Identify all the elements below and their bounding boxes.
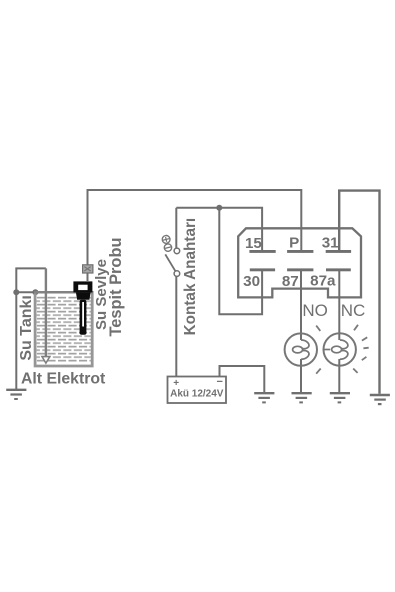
tank rim	[34, 291, 94, 294]
relay pin 87a bar	[326, 268, 351, 271]
battery Aku 12/24V	[168, 377, 227, 404]
ground under NC	[330, 393, 350, 402]
svg-text:P: P	[289, 234, 299, 251]
electrode wire into tank	[45, 268, 47, 356]
wire top horizontal from probe to relay P	[88, 190, 302, 281]
svg-text:Kontak Anahtarı: Kontak Anahtarı	[182, 218, 199, 336]
svg-text:30: 30	[243, 273, 260, 290]
wire rim connection	[16, 291, 36, 293]
wire battery minus to ground	[220, 366, 265, 393]
ground under NO	[292, 393, 312, 402]
svg-text:Alt Elektrot: Alt Elektrot	[21, 370, 106, 387]
relay pin 87 bar	[287, 268, 313, 271]
switch contact circle top	[174, 248, 180, 254]
switch lever	[165, 254, 175, 271]
svg-text:−: −	[216, 376, 222, 388]
node dot tank corner	[32, 289, 38, 295]
relay pin 31 bar	[326, 250, 351, 253]
connector square on probe wire	[83, 265, 93, 273]
wire pin 31 up and right to ground	[339, 191, 379, 394]
svg-text:Tespit Probu: Tespit Probu	[107, 238, 125, 337]
switch wire lower to battery	[175, 276, 177, 376]
wire switch to pin 15	[176, 208, 262, 252]
relay pin 15 bar	[249, 250, 275, 253]
svg-text:NO: NO	[302, 301, 328, 320]
relay pin 30 bar	[250, 268, 275, 271]
svg-text:Su Tankı: Su Tankı	[18, 295, 35, 361]
ground tank	[6, 390, 26, 399]
lamp NC	[324, 333, 356, 365]
wire tank ground: electrode loop and down to ground	[16, 268, 46, 389]
ground at right	[370, 395, 390, 404]
wire lamp NO to ground	[300, 359, 302, 393]
node junction dot at switch wire	[216, 205, 222, 211]
probe rod	[80, 300, 87, 335]
svg-text:87a: 87a	[310, 272, 336, 289]
svg-text:31: 31	[322, 235, 339, 252]
relay U1 outline	[238, 228, 361, 297]
probe cap	[73, 281, 92, 299]
switch contact circle bottom	[174, 271, 180, 277]
water tank walls	[35, 294, 92, 367]
svg-text:+: +	[173, 378, 179, 389]
switch wire upper (Kontak Anahtari)	[175, 208, 177, 248]
wire pin 87a down to lamp NC	[338, 270, 340, 340]
node dot left	[13, 289, 19, 295]
svg-text:87: 87	[282, 273, 299, 290]
lamp NO	[285, 333, 317, 365]
wire pin 87 down to lamp NO	[300, 270, 302, 340]
svg-text:Akü 12/24V: Akü 12/24V	[170, 388, 224, 399]
electrode arrow	[42, 357, 50, 364]
ground battery	[254, 393, 274, 402]
relay pin P bar	[287, 250, 313, 253]
svg-text:NC: NC	[341, 301, 366, 320]
wire lamp NC to ground	[338, 359, 340, 393]
key icon	[161, 235, 172, 252]
water hatching	[37, 297, 91, 363]
svg-text:15: 15	[245, 235, 262, 252]
light rays around NC lamp	[316, 325, 369, 374]
wire junction down to pin 30	[219, 208, 262, 314]
